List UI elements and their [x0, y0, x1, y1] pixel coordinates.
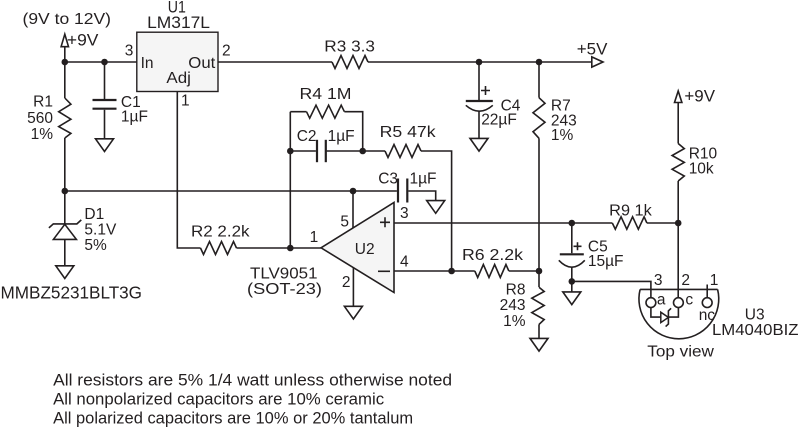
svg-text:5.1V: 5.1V [84, 222, 117, 239]
svg-text:5: 5 [340, 213, 349, 230]
node op-amp pin5 junction [350, 188, 357, 195]
svg-text:Adj: Adj [166, 70, 191, 87]
IC U3 package outline [639, 289, 719, 338]
U3 pin 2 circle [674, 298, 684, 308]
svg-text:R5 47k: R5 47k [380, 124, 436, 141]
node R5/R6 inverting junction [448, 268, 455, 275]
wire junction to U3 pin 2 [677, 223, 679, 298]
svg-text:U2: U2 [355, 241, 375, 258]
op-amp plus input sign [380, 217, 390, 227]
ground C1 [96, 139, 114, 152]
resistor R7 [533, 98, 545, 139]
power +9V arrow (input) [61, 34, 68, 47]
svg-text:MMBZ5231BLT3G: MMBZ5231BLT3G [1, 283, 143, 303]
zener D1 cathode bar [49, 220, 81, 228]
resistor R10 [672, 144, 684, 182]
C4 polarity plus sign [481, 86, 490, 95]
svg-text:All polarized capacitors are 1: All polarized capacitors are 10% or 20% … [53, 408, 413, 427]
power +9V arrow (right) [675, 91, 682, 103]
node zener reference junction [62, 188, 69, 195]
svg-text:Out: Out [188, 55, 216, 72]
wire R4 right corner down [344, 112, 362, 151]
svg-text:Top view: Top view [647, 343, 714, 360]
node C5 / pin3 junction [569, 220, 576, 227]
node input junction [62, 59, 69, 66]
svg-text:1µF: 1µF [328, 128, 355, 145]
resistor R4 [307, 105, 345, 118]
svg-text:R6 2.2k: R6 2.2k [462, 247, 523, 264]
power +5V arrow [592, 57, 603, 67]
svg-text:1%: 1% [551, 127, 574, 144]
wire R9 right [647, 222, 678, 224]
U3 pin 1 circle [702, 298, 712, 308]
wire U1 Out to R3 [218, 61, 332, 63]
svg-text:R8: R8 [506, 281, 526, 298]
svg-text:+9V: +9V [684, 88, 715, 106]
svg-text:4: 4 [400, 253, 409, 270]
svg-text:243: 243 [500, 297, 526, 314]
zener D1 triangle [53, 224, 76, 239]
wire R1 top lead [64, 62, 66, 98]
node R9/R10 junction [675, 220, 682, 227]
resistor R6 [475, 265, 509, 278]
wire U1 Adj pin down [177, 92, 200, 249]
capacitor C4 [478, 62, 480, 100]
svg-text:R2 2.2k: R2 2.2k [191, 223, 250, 240]
resistor R9 [612, 217, 647, 229]
svg-text:2: 2 [222, 42, 231, 59]
ground R8 [530, 338, 548, 351]
svg-text:(9V to 12V): (9V to 12V) [23, 11, 111, 28]
wire R7 top lead [538, 62, 540, 98]
svg-text:In: In [141, 55, 154, 72]
node feedback junction [287, 245, 294, 252]
node C2 left junction [287, 148, 294, 155]
wire R5 right corner down to inverting input [421, 151, 452, 271]
wire R10 bottom to junction [677, 181, 679, 223]
wire R6 to R7/R8 junction [509, 270, 539, 272]
svg-text:15µF: 15µF [588, 253, 624, 270]
svg-text:1%: 1% [31, 126, 54, 143]
ground op-amp pin 2 [344, 306, 362, 319]
op-amp U2 triangle [321, 203, 394, 293]
svg-text:+9V: +9V [67, 32, 99, 50]
U3 pin 3 circle [646, 298, 656, 308]
node C1 junction [101, 59, 108, 66]
node C5 bottom junction [569, 278, 576, 285]
op-amp minus input sign [378, 270, 390, 272]
wire +9V to R10 [677, 103, 679, 144]
svg-text:+5V: +5V [577, 40, 608, 58]
svg-text:2: 2 [342, 274, 351, 291]
wire R7 bottom to junction [538, 138, 540, 271]
wire R3 to +5V arrow [368, 61, 592, 63]
wire inverting input pin 4 [394, 270, 475, 272]
svg-text:c: c [685, 291, 693, 308]
svg-text:LM4040BIZ: LM4040BIZ [712, 322, 799, 339]
svg-text:1µF: 1µF [121, 108, 148, 125]
svg-text:D1: D1 [84, 206, 104, 223]
ground C5 [563, 292, 581, 305]
C5 polarity plus sign [574, 242, 582, 250]
U3 internal zener cathode lead [668, 308, 678, 318]
wire noninverting input pin 3 [394, 222, 572, 224]
svg-text:(SOT-23): (SOT-23) [247, 281, 322, 298]
svg-text:2: 2 [681, 272, 690, 289]
resistor R2 [201, 242, 237, 255]
resistor R8 [538, 271, 540, 287]
svg-text:C3: C3 [378, 170, 398, 187]
resistor R1 [59, 98, 71, 138]
svg-text:1%: 1% [503, 313, 526, 330]
zener D1 bottom lead [64, 239, 66, 265]
wire C5 node to ground [571, 281, 573, 292]
IC U1 LM317L box [137, 32, 218, 91]
U3 pin 1 stub [706, 285, 708, 298]
node C2 right junction [359, 148, 366, 155]
svg-text:R4 1M: R4 1M [300, 86, 352, 103]
zener D1 top lead [64, 191, 66, 224]
wire R9 left [572, 222, 613, 224]
ground D1 [56, 266, 74, 279]
svg-text:3: 3 [400, 205, 409, 222]
svg-text:22µF: 22µF [481, 112, 517, 129]
node C4 junction [476, 59, 483, 66]
svg-text:R9 1k: R9 1k [609, 203, 652, 220]
ground C4 [470, 138, 488, 151]
node R7/R8 junction [536, 268, 543, 275]
node R7 top junction [536, 59, 543, 66]
svg-text:1µF: 1µF [410, 170, 437, 187]
svg-text:560: 560 [27, 110, 53, 127]
svg-text:R3 3.3: R3 3.3 [324, 38, 375, 55]
wire main input rail to U1 In [65, 61, 137, 63]
svg-text:R1: R1 [33, 94, 53, 111]
ground C3 [427, 201, 445, 214]
svg-text:All nonpolarized capacitors ar: All nonpolarized capacitors are 10% cera… [53, 389, 384, 408]
wire R2 to op-amp output pin 1 [237, 247, 322, 249]
capacitor C5 [571, 223, 573, 253]
resistor R5 [363, 150, 385, 152]
wire op-amp pin 2 down [352, 268, 354, 307]
wire R4 branch left [290, 111, 306, 113]
U3 internal zener cathode bar [666, 308, 672, 326]
svg-text:1: 1 [181, 93, 190, 110]
svg-text:a: a [657, 291, 666, 308]
svg-text:3: 3 [654, 272, 663, 289]
resistor R3 [332, 56, 368, 69]
svg-text:U3: U3 [745, 306, 765, 323]
svg-text:All resistors are 5% 1/4 watt: All resistors are 5% 1/4 watt unless oth… [53, 370, 452, 389]
svg-text:5%: 5% [84, 237, 107, 254]
wire op-amp pin 5 supply [352, 191, 354, 229]
svg-text:LM317L: LM317L [147, 14, 210, 32]
svg-text:C2: C2 [297, 128, 317, 145]
wire feedback vertical [289, 112, 291, 248]
capacitor C1 [104, 62, 106, 99]
svg-text:10k: 10k [689, 161, 714, 178]
svg-text:1: 1 [710, 272, 719, 289]
U3 internal zener triangle [661, 312, 669, 322]
capacitor C2 [290, 150, 316, 152]
wire C5 node to U3 pin 3 [572, 281, 651, 297]
wire R1 bottom lead [64, 138, 66, 191]
U3 internal zener anode lead [651, 308, 661, 318]
capacitor C3 [397, 179, 399, 203]
wire +9V arrow stem [64, 47, 66, 62]
svg-text:1: 1 [310, 229, 319, 246]
wire 5.1V reference rail [65, 190, 397, 192]
svg-text:3: 3 [125, 42, 134, 59]
